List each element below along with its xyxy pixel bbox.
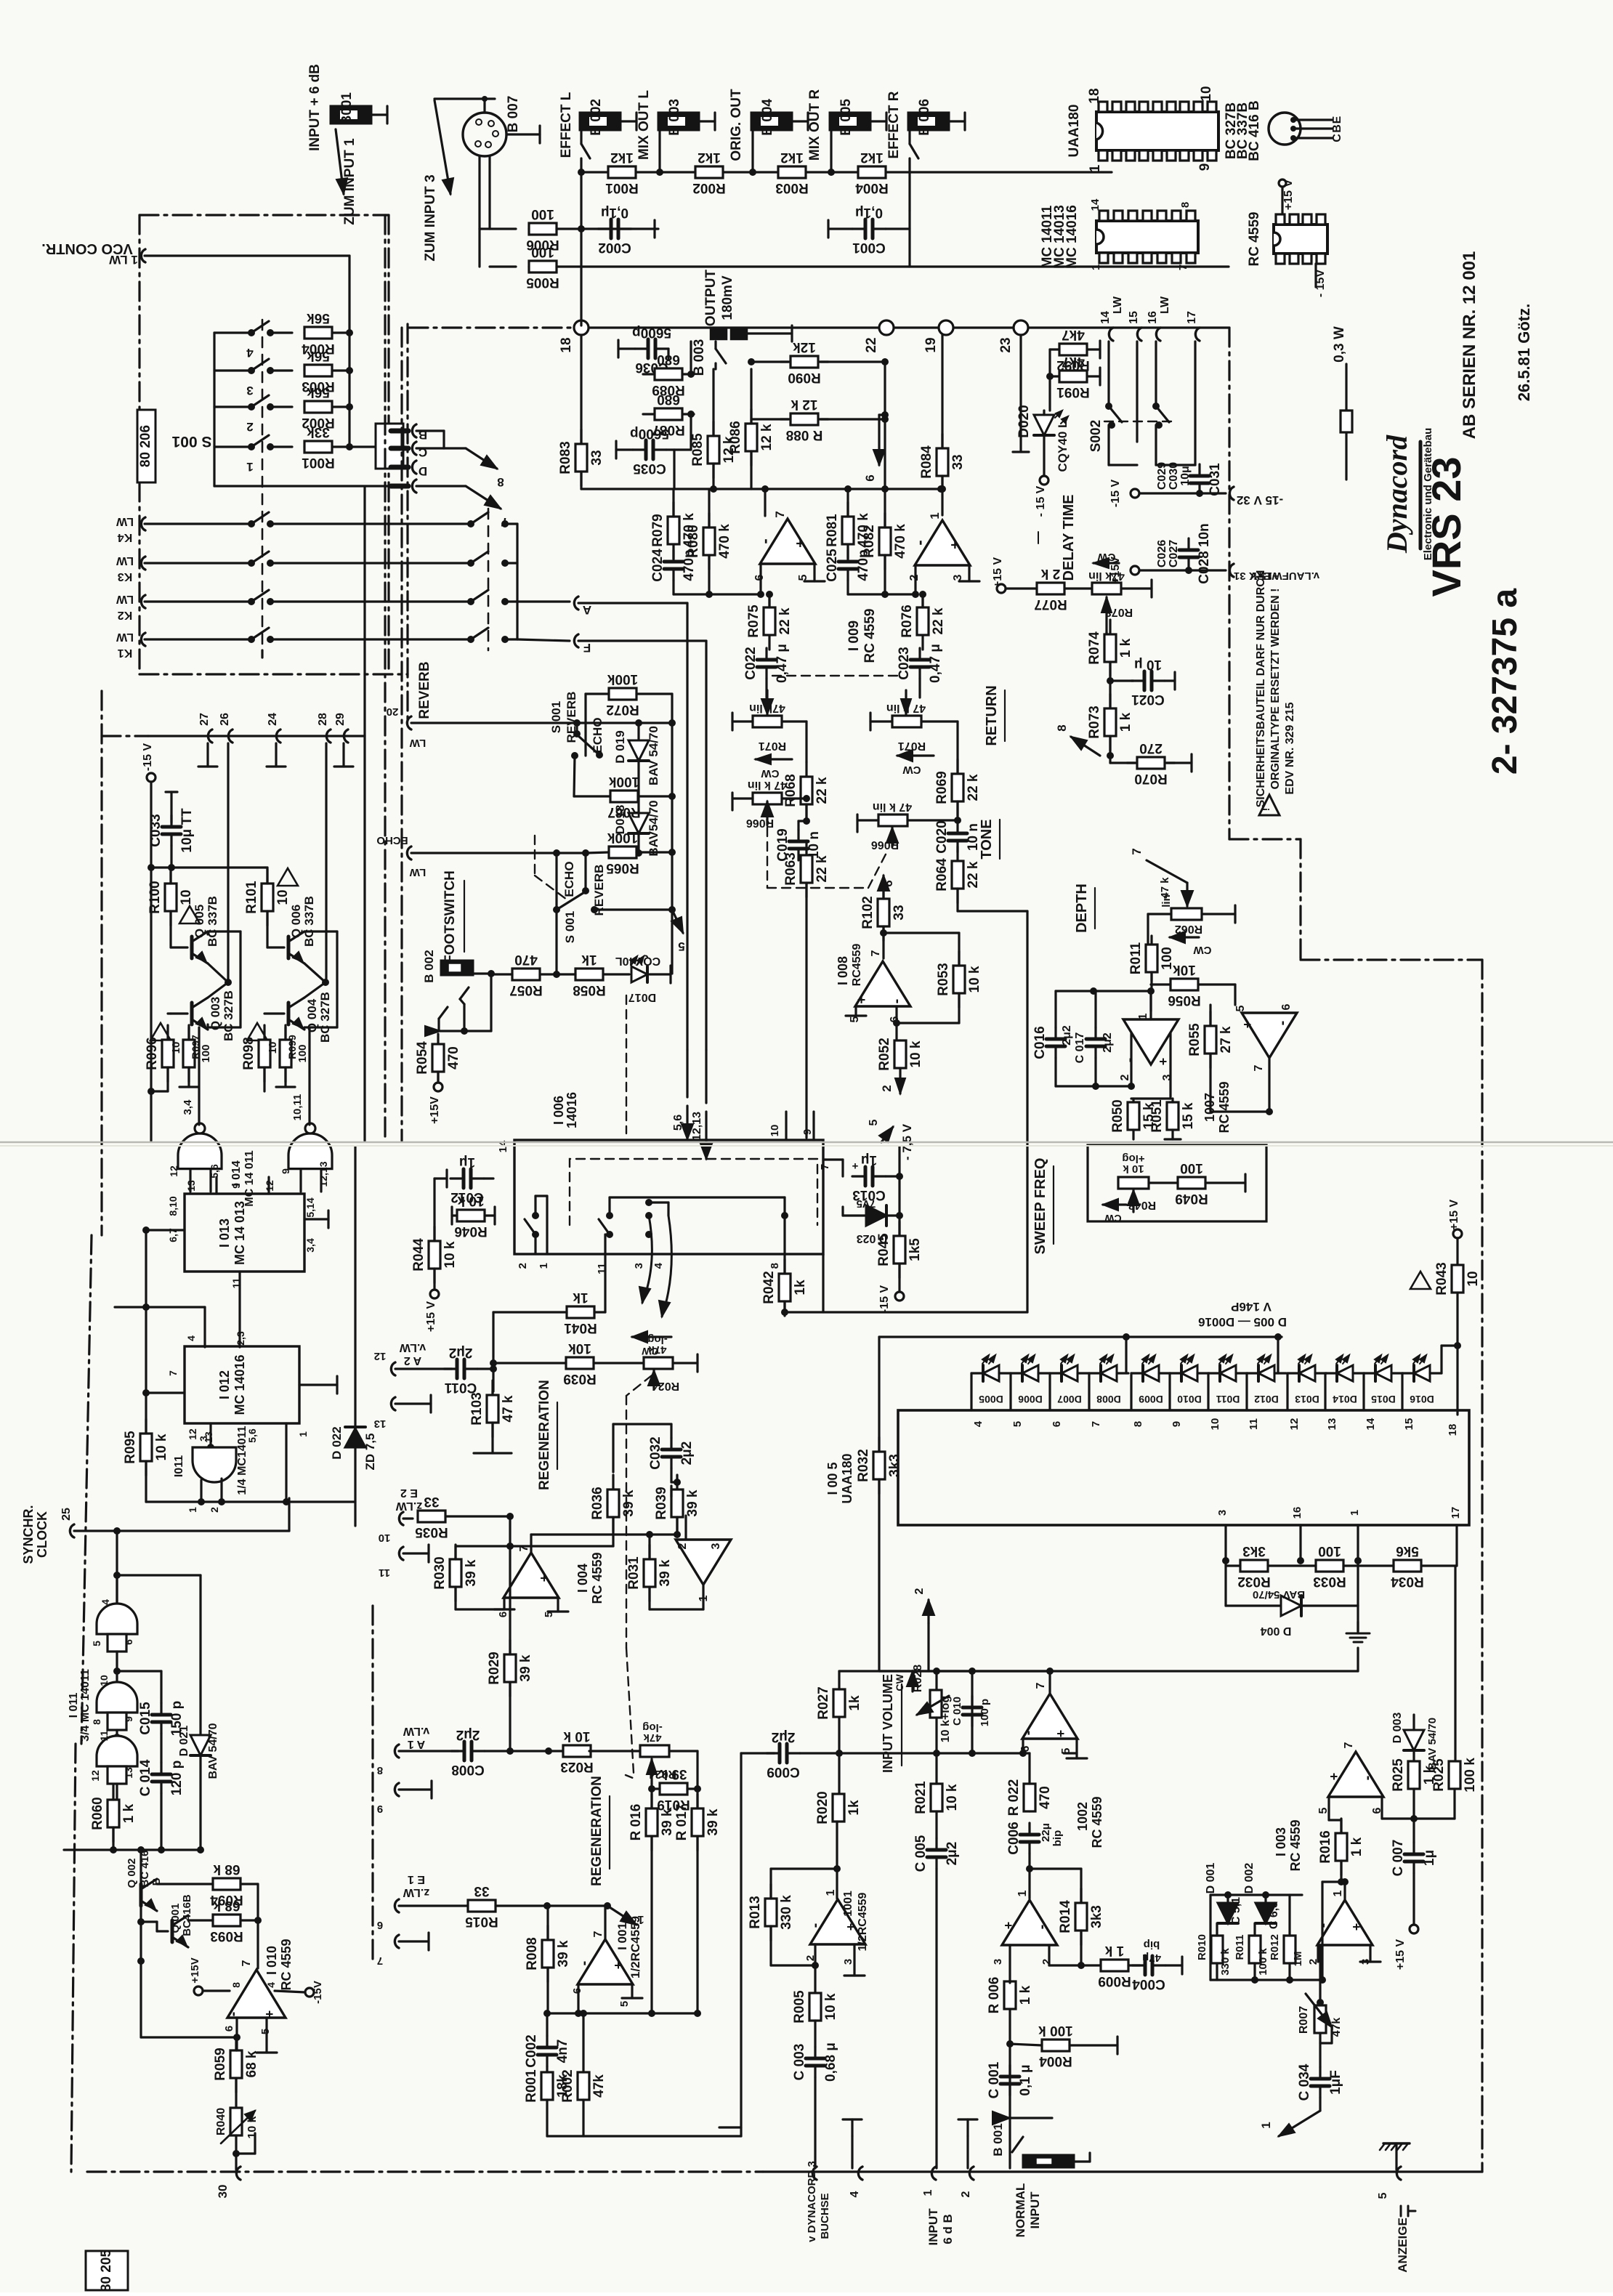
svg-text:BC 327B: BC 327B [222, 990, 235, 1041]
svg-text:17: 17 [1450, 1507, 1462, 1519]
svg-text:R063: R063 [783, 852, 799, 885]
svg-text:B: B [1331, 124, 1343, 133]
svg-text:REGENERATION: REGENERATION [537, 1380, 552, 1490]
svg-text:OUTPUT: OUTPUT [703, 270, 719, 327]
svg-text:33k: 33k [307, 424, 330, 440]
svg-text:470 k: 470 k [717, 524, 732, 559]
svg-text:3k3: 3k3 [1089, 1905, 1104, 1928]
svg-text:18: 18 [559, 337, 574, 352]
svg-text:-15V: -15V [312, 1981, 324, 2004]
svg-text:7V5: 7V5 [857, 1197, 876, 1210]
svg-text:SICHERHEITSBAUTEIL DARF NUR DU: SICHERHEITSBAUTEIL DARF NUR DURCH [1255, 570, 1267, 808]
svg-text:C022: C022 [743, 647, 759, 679]
svg-text:1 k: 1 k [1118, 712, 1133, 732]
svg-text:14016: 14016 [565, 1092, 579, 1128]
svg-text:R032: R032 [1237, 1574, 1270, 1589]
svg-text:1k: 1k [847, 1695, 862, 1711]
svg-text:4: 4 [265, 1982, 277, 1988]
svg-text:K4: K4 [118, 531, 133, 543]
svg-text:10: 10 [275, 889, 291, 905]
svg-text:R093: R093 [210, 1928, 243, 1944]
svg-text:B 007: B 007 [506, 96, 521, 133]
svg-text:R040: R040 [215, 2108, 227, 2135]
svg-text:C029: C029 [1156, 462, 1168, 490]
svg-text:C024: C024 [650, 549, 666, 582]
svg-text:9: 9 [280, 1168, 291, 1174]
svg-text:R075: R075 [746, 605, 761, 638]
svg-text:22 k: 22 k [931, 607, 946, 634]
svg-text:R010: R010 [1196, 1934, 1208, 1960]
svg-text:R100: R100 [147, 881, 163, 913]
svg-text:-: - [756, 538, 774, 543]
svg-text:C015: C015 [138, 1702, 153, 1735]
svg-text:I 00 5: I 00 5 [825, 1462, 840, 1495]
svg-text:BC 416 B: BC 416 B [1247, 100, 1262, 161]
svg-text:8: 8 [230, 1982, 242, 1988]
svg-text:Dynacord: Dynacord [1380, 434, 1413, 554]
svg-text:3k3: 3k3 [1242, 1543, 1266, 1559]
svg-text:R012: R012 [1269, 1934, 1281, 1960]
svg-text:DELAY TIME: DELAY TIME [1061, 495, 1077, 581]
svg-text:-log: -log [642, 1721, 663, 1734]
svg-text:1: 1 [1137, 1013, 1149, 1019]
svg-text:R065: R065 [606, 860, 639, 876]
svg-text:120 p: 120 p [169, 1761, 185, 1796]
svg-text:R032: R032 [856, 1449, 871, 1482]
svg-text:R001: R001 [605, 180, 639, 195]
svg-text:12: 12 [187, 1428, 198, 1440]
svg-text:22 k: 22 k [777, 607, 793, 634]
svg-text:-15 V 32: -15 V 32 [1237, 493, 1283, 507]
svg-text:5: 5 [678, 939, 684, 953]
svg-text:2 k: 2 k [1040, 566, 1060, 581]
svg-text:22: 22 [864, 337, 879, 352]
svg-text:7: 7 [592, 1931, 605, 1937]
svg-text:+: + [1054, 1730, 1068, 1738]
svg-text:CW: CW [894, 1674, 905, 1691]
svg-text:LW: LW [116, 593, 134, 605]
svg-text:1μ: 1μ [459, 1155, 475, 1170]
svg-text:7: 7 [1090, 1421, 1102, 1427]
svg-text:6: 6 [123, 1639, 134, 1645]
svg-text:2: 2 [880, 1085, 894, 1091]
svg-text:+: + [852, 1160, 858, 1172]
svg-text:680: 680 [657, 352, 680, 367]
svg-text:1k2: 1k2 [860, 150, 884, 165]
svg-text:330 k: 330 k [1219, 1948, 1232, 1976]
svg-text:47μ: 47μ [1142, 1952, 1161, 1964]
svg-text:I 010: I 010 [264, 1946, 279, 1975]
svg-text:C 010: C 010 [951, 1697, 963, 1726]
svg-text:47k: 47k [591, 2074, 607, 2098]
svg-text:470p: 470p [856, 549, 871, 581]
svg-text:16: 16 [1291, 1507, 1303, 1519]
svg-text:R087: R087 [652, 422, 684, 437]
svg-text:LW: LW [116, 554, 134, 567]
svg-text:I 001: I 001 [615, 1923, 629, 1950]
svg-text:v.LW: v.LW [403, 1725, 429, 1737]
svg-text:5: 5 [1234, 1005, 1247, 1011]
svg-text:BAV 54/70: BAV 54/70 [647, 726, 660, 785]
svg-text:1/2RC4559: 1/2RC4559 [628, 1916, 642, 1978]
svg-text:RC4559: RC4559 [851, 944, 863, 987]
svg-text:I 014: I 014 [230, 1160, 243, 1187]
svg-text:22 k: 22 k [966, 774, 981, 801]
svg-text:R039: R039 [563, 1371, 596, 1386]
svg-text:1: 1 [538, 1263, 550, 1269]
svg-text:10: 10 [98, 1675, 110, 1686]
svg-text:AB SERIEN NR. 12 001: AB SERIEN NR. 12 001 [1460, 251, 1479, 440]
svg-text:7: 7 [1253, 1064, 1265, 1071]
svg-text:0,3 W: 0,3 W [1332, 326, 1347, 363]
svg-text:10: 10 [379, 1532, 391, 1544]
svg-text:+log: +log [1122, 1152, 1144, 1165]
svg-text:1k: 1k [581, 952, 597, 967]
svg-text:B 003: B 003 [692, 339, 707, 376]
svg-text:R 017: R 017 [674, 1804, 690, 1841]
svg-text:LW: LW [1112, 296, 1124, 314]
svg-text:LW: LW [116, 515, 134, 527]
svg-text:22 k: 22 k [814, 777, 830, 804]
svg-text:R 022: R 022 [1006, 1779, 1022, 1816]
svg-text:2: 2 [908, 574, 921, 581]
svg-text:R073: R073 [1087, 706, 1102, 738]
svg-text:10: 10 [769, 1125, 781, 1137]
svg-text:-: - [1020, 1731, 1036, 1736]
svg-text:100: 100 [1318, 1543, 1341, 1559]
svg-text:8: 8 [1132, 1421, 1144, 1427]
svg-text:DEPTH: DEPTH [1074, 884, 1090, 933]
svg-text:+15V: +15V [189, 1957, 201, 1983]
svg-text:C009: C009 [767, 1764, 799, 1779]
svg-text:12 k: 12 k [791, 397, 817, 412]
svg-text:R 016: R 016 [628, 1804, 644, 1841]
svg-text:R077: R077 [1034, 597, 1067, 612]
svg-text:RC 4559: RC 4559 [590, 1552, 605, 1604]
svg-text:1: 1 [1332, 1890, 1344, 1896]
svg-text:I011: I011 [173, 1455, 185, 1477]
svg-text:D: D [419, 464, 427, 478]
svg-text:R066: R066 [746, 817, 774, 829]
svg-text:12,13: 12,13 [318, 1161, 329, 1187]
svg-text:R051: R051 [1149, 1099, 1165, 1133]
svg-text:5,6: 5,6 [209, 1164, 220, 1179]
svg-text:+: + [844, 1923, 858, 1931]
svg-text:33: 33 [424, 1494, 439, 1509]
svg-text:1μ: 1μ [861, 1152, 877, 1168]
svg-text:1/2RC4559: 1/2RC4559 [857, 1892, 869, 1951]
svg-text:D 019: D 019 [613, 730, 627, 763]
svg-text:C016: C016 [1032, 1026, 1048, 1059]
svg-text:56k: 56k [307, 384, 330, 400]
svg-text:R043: R043 [1434, 1262, 1450, 1295]
svg-text:1/4 MC14011: 1/4 MC14011 [236, 1426, 248, 1495]
svg-text:56k: 56k [307, 348, 330, 363]
svg-text:7: 7 [819, 1164, 831, 1170]
svg-text:22μ: 22μ [1040, 1823, 1052, 1842]
svg-text:B 005: B 005 [838, 99, 854, 136]
svg-text:R025: R025 [1391, 1758, 1406, 1792]
svg-text:R020: R020 [815, 1791, 830, 1824]
svg-text:R002: R002 [560, 2069, 575, 2102]
svg-text:ANZEIGE: ANZEIGE [1396, 2218, 1410, 2273]
svg-text:1 k: 1 k [1018, 1985, 1033, 2005]
svg-text:1k2: 1k2 [698, 150, 721, 165]
svg-text:39 k: 39 k [660, 1766, 687, 1782]
svg-text:R069: R069 [934, 771, 950, 804]
svg-text:RC 4559: RC 4559 [1288, 1819, 1303, 1871]
svg-text:8,10: 8,10 [167, 1196, 179, 1216]
svg-text:D015: D015 [1371, 1394, 1396, 1405]
svg-text:R005: R005 [792, 1990, 807, 2024]
svg-text:R057: R057 [509, 982, 542, 998]
svg-text:1007: 1007 [1202, 1093, 1217, 1122]
svg-text:CW: CW [1104, 1213, 1122, 1224]
svg-text:270: 270 [1139, 740, 1163, 756]
svg-text:80 206: 80 206 [138, 425, 153, 467]
svg-text:5,14: 5,14 [304, 1197, 316, 1217]
svg-text:R016: R016 [1318, 1830, 1333, 1863]
svg-text:R011: R011 [1234, 1934, 1246, 1960]
svg-text:E 1: E 1 [408, 1873, 425, 1885]
svg-text:R102: R102 [860, 896, 876, 929]
svg-text:470: 470 [446, 1046, 461, 1070]
svg-text:100: 100 [200, 1044, 212, 1062]
svg-text:14: 14 [1089, 198, 1101, 211]
svg-text:RC 4559: RC 4559 [1090, 1796, 1104, 1848]
svg-text:1 LW: 1 LW [108, 253, 138, 267]
svg-text:C008: C008 [451, 1762, 484, 1777]
svg-text:D 022: D 022 [330, 1426, 344, 1459]
svg-text:2,3: 2,3 [235, 1331, 246, 1346]
svg-text:180mV: 180mV [720, 275, 735, 320]
svg-text:C 034: C 034 [1297, 2063, 1312, 2101]
svg-text:C026: C026 [1156, 540, 1168, 567]
svg-text:+: + [537, 1575, 551, 1582]
svg-text:11: 11 [1248, 1418, 1260, 1430]
svg-text:2μ2: 2μ2 [1061, 1025, 1073, 1046]
svg-text:8: 8 [769, 1263, 781, 1269]
svg-text:R027: R027 [816, 1686, 831, 1719]
svg-text:K2: K2 [118, 609, 133, 621]
svg-text:V 146P: V 146P [1231, 1300, 1272, 1314]
svg-text:-15 V: -15 V [878, 1285, 891, 1314]
svg-text:4: 4 [849, 2191, 861, 2197]
svg-text:3: 3 [246, 384, 253, 397]
svg-text:1k: 1k [573, 1290, 589, 1305]
svg-text:R050: R050 [1110, 1099, 1125, 1132]
svg-text:13: 13 [1326, 1418, 1338, 1431]
svg-text:13: 13 [185, 1180, 197, 1192]
svg-text:!: ! [1260, 808, 1272, 812]
svg-text:1μF: 1μF [1328, 2070, 1343, 2095]
svg-text:2: 2 [246, 420, 253, 434]
svg-text:I 009: I 009 [846, 621, 862, 651]
svg-text:K3: K3 [118, 570, 133, 583]
svg-text:E: E [1331, 116, 1343, 124]
svg-text:5,6: 5,6 [672, 1115, 684, 1131]
svg-text:BAV 54/70: BAV 54/70 [207, 1723, 219, 1779]
svg-text:6: 6 [377, 1919, 383, 1931]
svg-text:18: 18 [1087, 88, 1102, 103]
svg-text:R055: R055 [1187, 1023, 1202, 1056]
svg-text:5: 5 [1011, 1421, 1024, 1427]
svg-text:-: - [1034, 1925, 1050, 1930]
svg-text:C 007: C 007 [1391, 1840, 1406, 1877]
svg-text:-: - [1359, 1776, 1375, 1781]
svg-text:39 k: 39 k [518, 1654, 533, 1681]
svg-text:C035: C035 [633, 461, 666, 476]
svg-text:B 002: B 002 [589, 99, 604, 136]
svg-text:10 k: 10 k [563, 1729, 590, 1744]
svg-text:2μ2: 2μ2 [945, 1842, 960, 1866]
svg-text:22 k: 22 k [814, 855, 830, 882]
svg-text:C020: C020 [934, 820, 950, 853]
svg-text:7: 7 [1177, 264, 1189, 270]
svg-text:3: 3 [633, 1263, 645, 1269]
svg-text:R 006: R 006 [987, 1977, 1002, 2014]
svg-text:R076: R076 [900, 605, 915, 637]
svg-text:6: 6 [1280, 1003, 1293, 1010]
svg-text:100: 100 [1160, 947, 1175, 970]
svg-text:2μ2: 2μ2 [679, 1442, 695, 1466]
svg-text:R103: R103 [469, 1392, 485, 1425]
svg-text:BC 327B: BC 327B [318, 992, 332, 1043]
svg-text:BC 337B: BC 337B [302, 896, 316, 947]
svg-text:ZUM INPUT 3: ZUM INPUT 3 [423, 174, 438, 261]
svg-text:10 k: 10 k [967, 966, 982, 993]
svg-text:10k: 10k [1173, 962, 1196, 977]
svg-text:LW: LW [1159, 296, 1171, 314]
svg-text:14: 14 [1365, 1418, 1377, 1430]
svg-text:+: + [1349, 1923, 1364, 1931]
svg-text:ORGINALTYPE ERSETZT WERDEN !: ORGINALTYPE ERSETZT WERDEN ! [1269, 588, 1282, 789]
svg-text:1: 1 [922, 2189, 934, 2196]
svg-text:BC 416: BC 416 [139, 1851, 151, 1888]
svg-text:MC 14016: MC 14016 [233, 1354, 247, 1415]
svg-text:27: 27 [198, 713, 211, 726]
svg-text:0,47 μ: 0,47 μ [775, 644, 790, 683]
svg-text:RC 4559: RC 4559 [862, 609, 878, 663]
svg-text:15 k: 15 k [1181, 1102, 1196, 1129]
svg-text:I 011: I 011 [68, 1693, 80, 1718]
svg-text:B 006: B 006 [917, 99, 932, 136]
svg-text:4: 4 [652, 1262, 665, 1269]
svg-text:R053: R053 [936, 963, 951, 995]
svg-text:EFFECT R: EFFECT R [886, 91, 902, 158]
svg-text:26.5.81 Götz.: 26.5.81 Götz. [1515, 304, 1533, 402]
svg-text:12: 12 [1288, 1418, 1301, 1431]
svg-text:C002: C002 [524, 2034, 539, 2067]
svg-text:D 001: D 001 [1205, 1863, 1217, 1894]
svg-text:1 k: 1 k [1104, 1943, 1124, 1958]
svg-text:9: 9 [123, 1716, 134, 1722]
svg-text:28: 28 [317, 713, 329, 726]
svg-text:- 15V: - 15V [1314, 270, 1327, 298]
svg-text:FOOTSWITCH: FOOTSWITCH [442, 870, 458, 963]
svg-text:12 k: 12 k [759, 424, 775, 450]
svg-text:C 005: C 005 [913, 1835, 929, 1872]
svg-text:39 k: 39 k [464, 1559, 479, 1586]
svg-text:1 k: 1 k [1118, 638, 1133, 658]
svg-text:R002: R002 [692, 180, 725, 195]
svg-text:470 k: 470 k [893, 524, 908, 559]
svg-text:11: 11 [379, 1567, 390, 1579]
svg-text:12,13: 12,13 [691, 1112, 703, 1141]
svg-text:6: 6 [753, 574, 766, 581]
svg-text:+15 V: +15 V [1394, 1939, 1407, 1970]
svg-text:5: 5 [868, 1119, 880, 1125]
svg-text:C 5,1: C 5,1 [1230, 1897, 1242, 1925]
svg-text:R054: R054 [415, 1041, 430, 1075]
svg-text:v DYNACORD 3: v DYNACORD 3 [806, 2161, 818, 2242]
svg-text:6 d B: 6 d B [941, 2214, 955, 2244]
svg-text:16: 16 [1147, 311, 1159, 324]
svg-text:R071: R071 [759, 740, 786, 752]
svg-text:-: - [889, 999, 905, 1004]
svg-text:C 003: C 003 [792, 2044, 807, 2081]
svg-text:RC 4559: RC 4559 [279, 1939, 294, 1990]
svg-text:R039: R039 [654, 1487, 669, 1519]
svg-text:R003: R003 [775, 180, 808, 195]
svg-text:+15V: +15V [1109, 557, 1122, 584]
svg-text:BUCHSE: BUCHSE [819, 2193, 831, 2239]
svg-text:+: + [1001, 1922, 1016, 1930]
svg-text:MC 14016: MC 14016 [1064, 205, 1080, 269]
svg-text:CLOCK: CLOCK [35, 1511, 49, 1558]
svg-text:7: 7 [1130, 848, 1144, 854]
svg-text:2: 2 [676, 1543, 689, 1549]
svg-text:10μ TT: 10μ TT [179, 808, 195, 853]
svg-text:- 15 V: - 15 V [1035, 485, 1047, 517]
svg-text:2: 2 [1119, 1074, 1131, 1080]
svg-text:I 004: I 004 [575, 1564, 590, 1593]
svg-text:R034: R034 [1391, 1574, 1424, 1589]
svg-text:v.LAUFWERK 31: v.LAUFWERK 31 [1234, 570, 1319, 582]
svg-text:680: 680 [657, 392, 680, 407]
svg-text:39 k: 39 k [658, 1559, 673, 1586]
svg-text:1k5: 1k5 [907, 1238, 923, 1261]
svg-text:R011: R011 [1128, 942, 1144, 974]
svg-text:2μ2: 2μ2 [449, 1345, 473, 1360]
svg-text:+: + [1240, 1021, 1255, 1029]
svg-text:3: 3 [992, 1959, 1004, 1965]
svg-text:2- 327375 a: 2- 327375 a [1486, 589, 1524, 775]
svg-text:2: 2 [209, 1507, 220, 1513]
svg-text:2μ2: 2μ2 [772, 1729, 796, 1745]
svg-text:MC 14 013: MC 14 013 [233, 1201, 247, 1265]
svg-text:CQY40L: CQY40L [615, 955, 660, 967]
svg-text:R041: R041 [564, 1320, 597, 1335]
svg-text:NORMAL: NORMAL [1014, 2183, 1027, 2238]
svg-text:4: 4 [100, 1599, 111, 1605]
svg-text:INPUT: INPUT [926, 2208, 940, 2246]
svg-text:1k: 1k [793, 1280, 808, 1295]
svg-text:R001: R001 [302, 455, 335, 470]
svg-text:47 k: 47 k [501, 1395, 516, 1422]
svg-text:-: - [807, 1923, 823, 1928]
svg-text:R086: R086 [728, 421, 743, 453]
svg-text:0,1μ: 0,1μ [855, 205, 883, 220]
svg-text:B001: B001 [339, 92, 355, 126]
svg-text:7: 7 [870, 950, 882, 956]
svg-text:17: 17 [1186, 311, 1198, 324]
svg-text:27 k: 27 k [1218, 1026, 1234, 1053]
svg-text:+: + [611, 1962, 626, 1970]
svg-text:47 k: 47 k [1159, 877, 1171, 899]
svg-text:5: 5 [618, 2001, 631, 2007]
svg-text:-: - [910, 540, 929, 545]
